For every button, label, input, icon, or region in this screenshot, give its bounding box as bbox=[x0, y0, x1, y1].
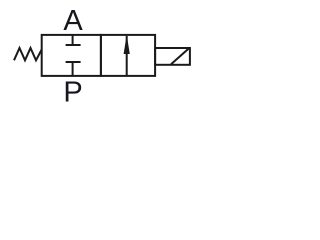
flow path arrow stem bbox=[126, 36, 128, 76]
valve body left square (closed position) bbox=[42, 35, 101, 76]
blocked port P: crossbar bbox=[66, 61, 81, 63]
solenoid body bbox=[155, 48, 190, 65]
spring (return spring, left actuator) bbox=[14, 48, 42, 60]
blocked port P: stem bbox=[72, 62, 74, 76]
valve body right square (open position) bbox=[101, 35, 155, 76]
svg-text:A: A bbox=[63, 5, 83, 37]
blocked port A: crossbar bbox=[66, 44, 81, 46]
blocked port A: stem bbox=[72, 35, 74, 45]
flow path arrow head bbox=[124, 35, 130, 54]
solenoid diagonal bbox=[171, 49, 189, 65]
svg-text:P: P bbox=[63, 77, 82, 109]
